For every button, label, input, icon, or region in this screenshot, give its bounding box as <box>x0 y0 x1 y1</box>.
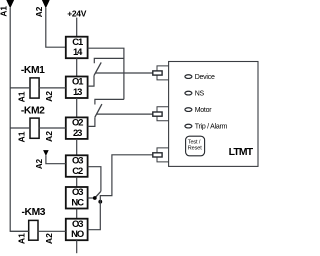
wire rail A2 to C1 <box>46 8 66 47</box>
wire rail A1 <box>10 8 29 231</box>
changeover blade <box>95 191 101 198</box>
wire C1 right to riser <box>88 48 124 99</box>
svg-text:NO: NO <box>71 228 84 239</box>
svg-text:A2: A2 <box>44 131 54 142</box>
supply arrow A2 <box>42 0 50 8</box>
connector bracket 3 <box>157 148 169 162</box>
wire O3NO bottom stub <box>76 240 78 253</box>
wire O3NC bottom to O3NO top <box>76 209 78 219</box>
LTMT controller body <box>169 62 258 167</box>
LED NS <box>185 91 192 95</box>
svg-text:Device: Device <box>195 74 215 81</box>
svg-text:-KM2: -KM2 <box>21 106 45 117</box>
svg-text:Motor: Motor <box>195 107 213 114</box>
svg-text:+24V: +24V <box>67 8 87 18</box>
wire O3C2 bottom to O3NC top <box>76 177 78 187</box>
svg-text:A1: A1 <box>0 6 9 17</box>
svg-text:A1: A1 <box>17 131 27 142</box>
connector bracket 1 <box>157 66 169 80</box>
wire A2 mid to O3C2 <box>46 156 66 164</box>
coil KM3 <box>29 220 38 240</box>
terminal O1 13 <box>66 76 88 98</box>
terminal O3 NO <box>66 218 88 240</box>
svg-text:A2: A2 <box>34 6 44 17</box>
svg-text:A2: A2 <box>44 233 54 244</box>
wire KM2 to O2 <box>39 127 66 129</box>
supply arrow A1 <box>6 0 14 8</box>
wire contact2 top feed <box>95 99 124 104</box>
coil KM1 <box>30 78 39 98</box>
LED Motor <box>185 108 192 112</box>
wire O3C2 right to blade riser <box>88 167 101 192</box>
svg-text:A1: A1 <box>17 91 27 102</box>
LED Device <box>185 75 192 79</box>
wire C1 bottom to O1 top <box>76 58 78 76</box>
wire A1 rail to KM2 <box>10 127 30 129</box>
wire O3NC right to NC point <box>88 197 95 199</box>
wire contact2 pivot to O2 <box>88 117 95 126</box>
svg-text:Test /: Test / <box>188 139 201 145</box>
svg-text:Reset: Reset <box>188 146 202 152</box>
supply arrow A2 mid <box>43 150 49 156</box>
connector bracket 2 <box>157 107 169 121</box>
svg-text:A1: A1 <box>17 233 27 244</box>
contact 1 blade <box>94 62 101 75</box>
terminal O2 23 <box>66 117 88 139</box>
connector plug 3 <box>153 153 162 157</box>
svg-text:C2: C2 <box>72 165 83 176</box>
terminal C1 14 <box>66 36 88 58</box>
junction NC contact <box>93 196 97 200</box>
wire contact1 pivot to O1 <box>88 76 94 87</box>
button Test Reset <box>186 136 205 156</box>
terminal O3 NC <box>66 186 88 208</box>
svg-text:NC: NC <box>71 197 84 208</box>
wire +24V to C1 <box>76 18 78 37</box>
svg-text:A2: A2 <box>35 158 44 169</box>
terminal O3 C2 <box>66 155 88 177</box>
wire O1 bottom to O2 top <box>76 98 78 117</box>
wire NO point to connector3 riser <box>100 155 152 202</box>
connector plug 1 <box>153 71 162 75</box>
svg-text:LTMT: LTMT <box>229 147 254 158</box>
wire contact1 top feed <box>94 58 124 63</box>
wire contact2 output to connector2 <box>96 113 152 115</box>
svg-text:-KM1: -KM1 <box>21 65 45 76</box>
junction NO contact <box>98 200 102 204</box>
svg-text:13: 13 <box>73 86 82 97</box>
wire KM1 to O1 <box>39 87 66 89</box>
wire contact1 output to connector1 <box>95 72 153 74</box>
coil KM2 <box>30 118 39 138</box>
svg-text:23: 23 <box>73 127 82 138</box>
svg-text:NS: NS <box>195 90 205 97</box>
svg-text:Trip / Alarm: Trip / Alarm <box>195 123 228 130</box>
wire A1 rail to KM1 <box>10 87 30 89</box>
svg-text:A2: A2 <box>44 91 54 102</box>
wire O2 bottom to O3C2 top <box>76 139 78 155</box>
svg-text:-KM3: -KM3 <box>22 207 46 218</box>
wire NO point down to O3NO <box>88 202 101 230</box>
wire A1 rail to KM3 <box>10 230 29 232</box>
wire KM3 to O3NO <box>38 230 66 232</box>
connector plug 2 <box>153 112 162 116</box>
LED Trip Alarm <box>185 124 192 128</box>
contact 2 blade <box>95 104 102 117</box>
